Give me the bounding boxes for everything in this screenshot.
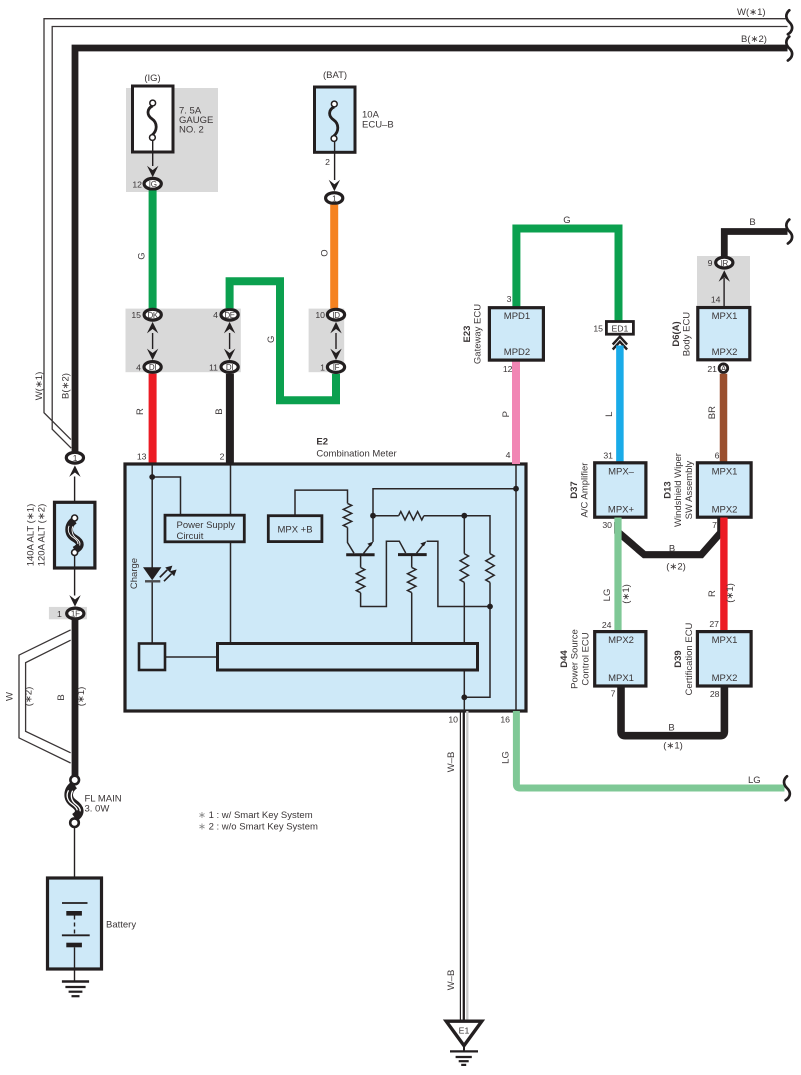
transistor Q1 <box>346 542 374 555</box>
svg-text:Circuit: Circuit <box>177 531 204 542</box>
svg-text:Power Source: Power Source <box>570 629 581 689</box>
svg-text:Power Supply: Power Supply <box>177 520 236 531</box>
svg-text:10: 10 <box>315 310 325 320</box>
connector DK <box>144 309 161 320</box>
wire B thick diagonal D37 to D13 (*2) <box>618 518 721 555</box>
resistor R3a <box>356 568 364 593</box>
wire square to bus box <box>165 656 218 658</box>
wire R4 to bus box <box>463 582 465 643</box>
svg-text:7: 7 <box>611 688 616 698</box>
svg-text:D6(A): D6(A) <box>671 321 682 346</box>
svg-text:O: O <box>320 249 331 256</box>
svg-text:21: 21 <box>707 364 717 374</box>
svg-text:IG: IG <box>149 180 157 189</box>
MPX +B box <box>268 516 322 542</box>
resistor R3b <box>408 567 416 592</box>
svg-text:(∗2): (∗2) <box>24 687 35 707</box>
connector ED1 <box>606 322 633 335</box>
svg-text:E23: E23 <box>462 326 473 343</box>
svg-text:Battery: Battery <box>106 920 136 931</box>
wire B thick from IR to right edge <box>724 232 787 258</box>
svg-text:G: G <box>137 252 148 259</box>
wire L blue to D37 <box>616 346 624 464</box>
svg-text:MPX2: MPX2 <box>712 347 738 358</box>
D39 Certification ECU box <box>697 632 751 686</box>
svg-text:B: B <box>749 217 755 228</box>
svg-text:D44: D44 <box>559 650 570 668</box>
D13 Windshield Wiper SW Assembly box <box>697 463 751 517</box>
wire B(*2) thick black, top and left <box>75 48 788 452</box>
E2 Combination Meter box <box>125 464 526 711</box>
gray pad 1F <box>49 607 87 619</box>
svg-text:MPD2: MPD2 <box>504 347 530 358</box>
resistor R2 <box>399 512 424 520</box>
wire W(*1) white outlined wire, top and left <box>44 19 788 449</box>
svg-text:ID: ID <box>332 311 340 320</box>
svg-text:W(∗1): W(∗1) <box>737 7 766 18</box>
svg-text:LG: LG <box>602 589 613 602</box>
svg-text:Body ECU: Body ECU <box>682 312 693 356</box>
svg-text:D39: D39 <box>673 650 684 667</box>
svg-text:MPX1: MPX1 <box>712 635 738 646</box>
junction arrows ID-IF <box>330 322 341 360</box>
wire R red D13 to D39 (*1) <box>720 518 727 632</box>
svg-text:MPX2: MPX2 <box>712 504 738 515</box>
svg-text:MPX1: MPX1 <box>608 673 634 684</box>
wire B black DI to E2 pin 2 <box>226 374 234 464</box>
wire B thick U D44 to D39 (*1) <box>621 687 724 736</box>
svg-text:15: 15 <box>593 323 603 333</box>
svg-text:11: 11 <box>209 363 218 373</box>
svg-text:MPX1: MPX1 <box>712 311 738 322</box>
resistor R1 <box>343 503 351 527</box>
svg-text:120A ALT (∗2): 120A ALT (∗2) <box>37 504 48 567</box>
svg-text:140A ALT (∗1): 140A ALT (∗1) <box>26 504 37 567</box>
svg-text:DK: DK <box>147 311 158 320</box>
svg-text:B: B <box>669 544 675 555</box>
top rail <box>373 489 516 542</box>
svg-text:G: G <box>266 336 277 343</box>
svg-text:12: 12 <box>503 364 513 374</box>
svg-text:B(∗2): B(∗2) <box>741 34 767 45</box>
connector 1 (BAT) <box>326 193 343 204</box>
svg-text:MPX +B: MPX +B <box>277 525 312 536</box>
svg-text:P: P <box>501 411 512 417</box>
svg-text:28: 28 <box>710 689 720 699</box>
wire fuse to connector 1 <box>334 141 336 180</box>
bus bar box <box>218 644 478 671</box>
svg-text:W–B: W–B <box>446 752 457 773</box>
wire R red DI to E2 pin 13 <box>149 374 157 464</box>
svg-text:ECU–B: ECU–B <box>362 120 394 131</box>
wire O orange to ID <box>330 205 338 309</box>
arrow down into IG <box>147 166 158 178</box>
wire G green E23 to ED1 <box>516 229 618 322</box>
LED charge lamp <box>143 566 177 582</box>
wire MPX+B top elbow to R1 <box>295 490 348 516</box>
chevron shield below ED1 <box>613 337 627 350</box>
svg-text:(∗1): (∗1) <box>76 687 87 707</box>
wire PSC bottom to bus box <box>230 542 232 644</box>
wire W(*2) alternative outline <box>19 630 71 763</box>
connector IF <box>327 362 344 373</box>
wire to alternator <box>74 477 76 503</box>
svg-text:Windshield Wiper: Windshield Wiper <box>673 453 684 527</box>
svg-text:Combination Meter: Combination Meter <box>316 448 396 459</box>
svg-text:10: 10 <box>448 715 458 725</box>
ground E1 <box>446 1021 482 1065</box>
D37 A/C Amplifier box <box>595 463 646 517</box>
connector DI <box>144 362 161 373</box>
D6(A) Body ECU box <box>698 308 750 360</box>
svg-text:MPD1: MPD1 <box>504 311 530 322</box>
connector ID <box>327 309 344 320</box>
gray junction block ID/IF <box>309 309 345 373</box>
gray pad IG fuse <box>126 88 218 192</box>
svg-text:(∗1): (∗1) <box>725 583 736 603</box>
svg-text:BR: BR <box>707 406 718 419</box>
svg-text:2: 2 <box>325 157 330 167</box>
fuse 10A ECU-B <box>315 87 356 152</box>
wire FL MAIN to battery <box>74 828 76 904</box>
off-page squiggle B <box>786 37 792 61</box>
svg-text:(∗2): (∗2) <box>666 562 686 573</box>
svg-text:W–B: W–B <box>446 970 457 991</box>
wire pin2 to PSC top <box>230 466 232 516</box>
svg-text:IF: IF <box>333 363 340 372</box>
wire fuse to IG connector <box>152 140 154 166</box>
svg-text:MPX–: MPX– <box>608 466 635 477</box>
svg-text:LG: LG <box>748 775 761 786</box>
svg-text:15: 15 <box>131 310 141 320</box>
svg-text:∗ 1 : w/ Smart Key System: ∗ 1 : w/ Smart Key System <box>198 810 313 821</box>
svg-text:31: 31 <box>603 451 613 461</box>
svg-text:G: G <box>563 215 570 226</box>
transistor Q2 <box>398 541 427 554</box>
off-page squiggle W <box>786 10 792 34</box>
wire alternator to 1F <box>74 556 76 596</box>
junction dots <box>149 474 519 700</box>
wire R3b to bus box <box>411 593 413 644</box>
svg-text:14: 14 <box>711 295 721 305</box>
wire to MPX1 pin 14 <box>723 278 725 308</box>
off-page squiggle B right <box>786 220 792 244</box>
svg-text:MPX2: MPX2 <box>608 635 634 646</box>
svg-text:27: 27 <box>709 619 719 629</box>
svg-text:DI: DI <box>226 363 233 372</box>
wire pin13 down to LED <box>151 466 153 568</box>
svg-text:7: 7 <box>712 520 717 530</box>
connector IR <box>716 257 733 268</box>
connector DE <box>221 309 238 320</box>
wire P pink MPD2 to E2 pin 4 <box>512 361 520 465</box>
connector IG <box>144 178 161 189</box>
svg-text:Certification ECU: Certification ECU <box>684 622 695 695</box>
svg-text:(BAT): (BAT) <box>323 70 347 81</box>
svg-text:IR: IR <box>721 259 729 268</box>
svg-text:1: 1 <box>320 363 325 373</box>
battery <box>48 878 102 969</box>
svg-text:6: 6 <box>715 451 720 461</box>
wire pin4 to pin16 vertical <box>515 466 517 711</box>
svg-text:24: 24 <box>602 620 612 630</box>
svg-text:1: 1 <box>57 609 62 619</box>
svg-text:4: 4 <box>136 363 141 373</box>
wire bus box to pin 10 <box>463 670 465 712</box>
connector DI (11) <box>221 362 238 373</box>
small square <box>139 644 165 671</box>
E2 internal wires <box>152 466 516 713</box>
junction arrows DK-DI <box>147 322 158 360</box>
wire branch dot to Power Supply Circuit <box>152 477 180 515</box>
resistor R4 <box>460 554 468 583</box>
svg-text:E2: E2 <box>316 437 328 448</box>
connector A <box>719 364 728 373</box>
wire G green elbow DE to IF <box>230 281 336 400</box>
svg-text:3. 0W: 3. 0W <box>85 804 110 815</box>
svg-text:LG: LG <box>501 751 512 764</box>
svg-text:∗ 2 : w/o Smart Key System: ∗ 2 : w/o Smart Key System <box>198 822 318 833</box>
svg-text:D37: D37 <box>569 481 580 498</box>
svg-text:(IG): (IG) <box>144 73 160 84</box>
junction arrows DE-DI <box>224 322 235 360</box>
wire B thick below 1F <box>72 620 79 778</box>
svg-text:DE: DE <box>224 311 235 320</box>
svg-text:2: 2 <box>220 452 225 462</box>
svg-text:B(∗2): B(∗2) <box>61 373 72 399</box>
wire LED to square <box>151 581 153 644</box>
svg-text:W(∗1): W(∗1) <box>34 372 45 401</box>
svg-text:13: 13 <box>137 452 147 462</box>
ground below battery <box>62 982 89 997</box>
mid rail right <box>424 516 490 554</box>
Power Supply Circuit box <box>165 515 244 542</box>
svg-text:R: R <box>707 590 718 597</box>
mid rail <box>373 515 399 517</box>
svg-text:4: 4 <box>506 450 511 460</box>
wire LG light green E2 pin16 to right edge <box>516 711 784 788</box>
svg-text:12: 12 <box>132 179 142 189</box>
D44 Power Source Control ECU box <box>595 632 646 686</box>
svg-text:Charge: Charge <box>129 558 140 589</box>
svg-text:W: W <box>4 692 15 701</box>
svg-text:30: 30 <box>602 520 612 530</box>
wire R3a to Q2 collector <box>361 541 406 606</box>
resistor R5 <box>486 554 494 583</box>
svg-text:MPX2: MPX2 <box>712 673 738 684</box>
svg-text:1F: 1F <box>71 610 80 619</box>
wire R4 top <box>463 516 465 554</box>
svg-text:D13: D13 <box>663 481 674 498</box>
svg-text:L: L <box>604 412 615 417</box>
wire Q2 base <box>411 555 413 568</box>
svg-text:4: 4 <box>213 310 218 320</box>
svg-text:R: R <box>135 408 146 415</box>
fusible link FL MAIN 3.0W <box>67 776 80 827</box>
fusible link 140A ALT / 120A ALT <box>55 502 95 568</box>
svg-text:NO. 2: NO. 2 <box>179 125 204 136</box>
connector 1 (left) <box>66 452 83 463</box>
wire LG light green D37 to D44 (*1) <box>614 518 621 632</box>
svg-text:MPX1: MPX1 <box>712 466 738 477</box>
svg-text:SW Assembly: SW Assembly <box>684 460 695 519</box>
arrow down into connector 1 <box>329 180 340 192</box>
svg-text:(∗1): (∗1) <box>663 741 683 752</box>
wire W-B E2 pin10 to E1 <box>460 711 467 1021</box>
connector 1F <box>67 608 84 619</box>
wire Q2 emitter to R5 dot <box>427 541 490 606</box>
svg-text:(∗1): (∗1) <box>621 584 632 604</box>
arrow up into IR <box>719 270 730 282</box>
svg-text:3: 3 <box>507 294 512 304</box>
svg-text:A/C Amplifier: A/C Amplifier <box>580 463 591 518</box>
wire dot to R5 branch <box>464 607 490 698</box>
svg-text:MPX+: MPX+ <box>608 504 635 515</box>
wire R1 to Q1 collector <box>348 527 355 553</box>
svg-text:B: B <box>214 408 225 414</box>
gray junction block DK/DE <box>126 309 241 373</box>
svg-text:Gateway ECU: Gateway ECU <box>473 304 484 364</box>
svg-text:DI: DI <box>149 363 156 372</box>
E23 Gateway ECU box <box>489 308 543 360</box>
wire R5 to dot <box>489 582 491 606</box>
svg-text:B: B <box>56 694 67 700</box>
svg-text:Control ECU: Control ECU <box>581 632 592 685</box>
gray pad IR <box>697 256 750 306</box>
off-page squiggle LG <box>784 776 790 800</box>
wire Q1 base <box>360 555 362 568</box>
arrow up into connector 1 <box>69 465 80 477</box>
wire BR brown A to D13 <box>720 374 728 463</box>
fuse 7.5A GAUGE NO.2 <box>133 86 174 152</box>
svg-text:9: 9 <box>708 258 713 268</box>
svg-text:B: B <box>668 723 674 734</box>
svg-text:ED1: ED1 <box>611 323 628 333</box>
svg-text:E1: E1 <box>459 1026 470 1036</box>
arrow down into 1F <box>69 595 80 607</box>
wire G green IG to DK <box>149 191 157 309</box>
svg-text:16: 16 <box>500 715 510 725</box>
